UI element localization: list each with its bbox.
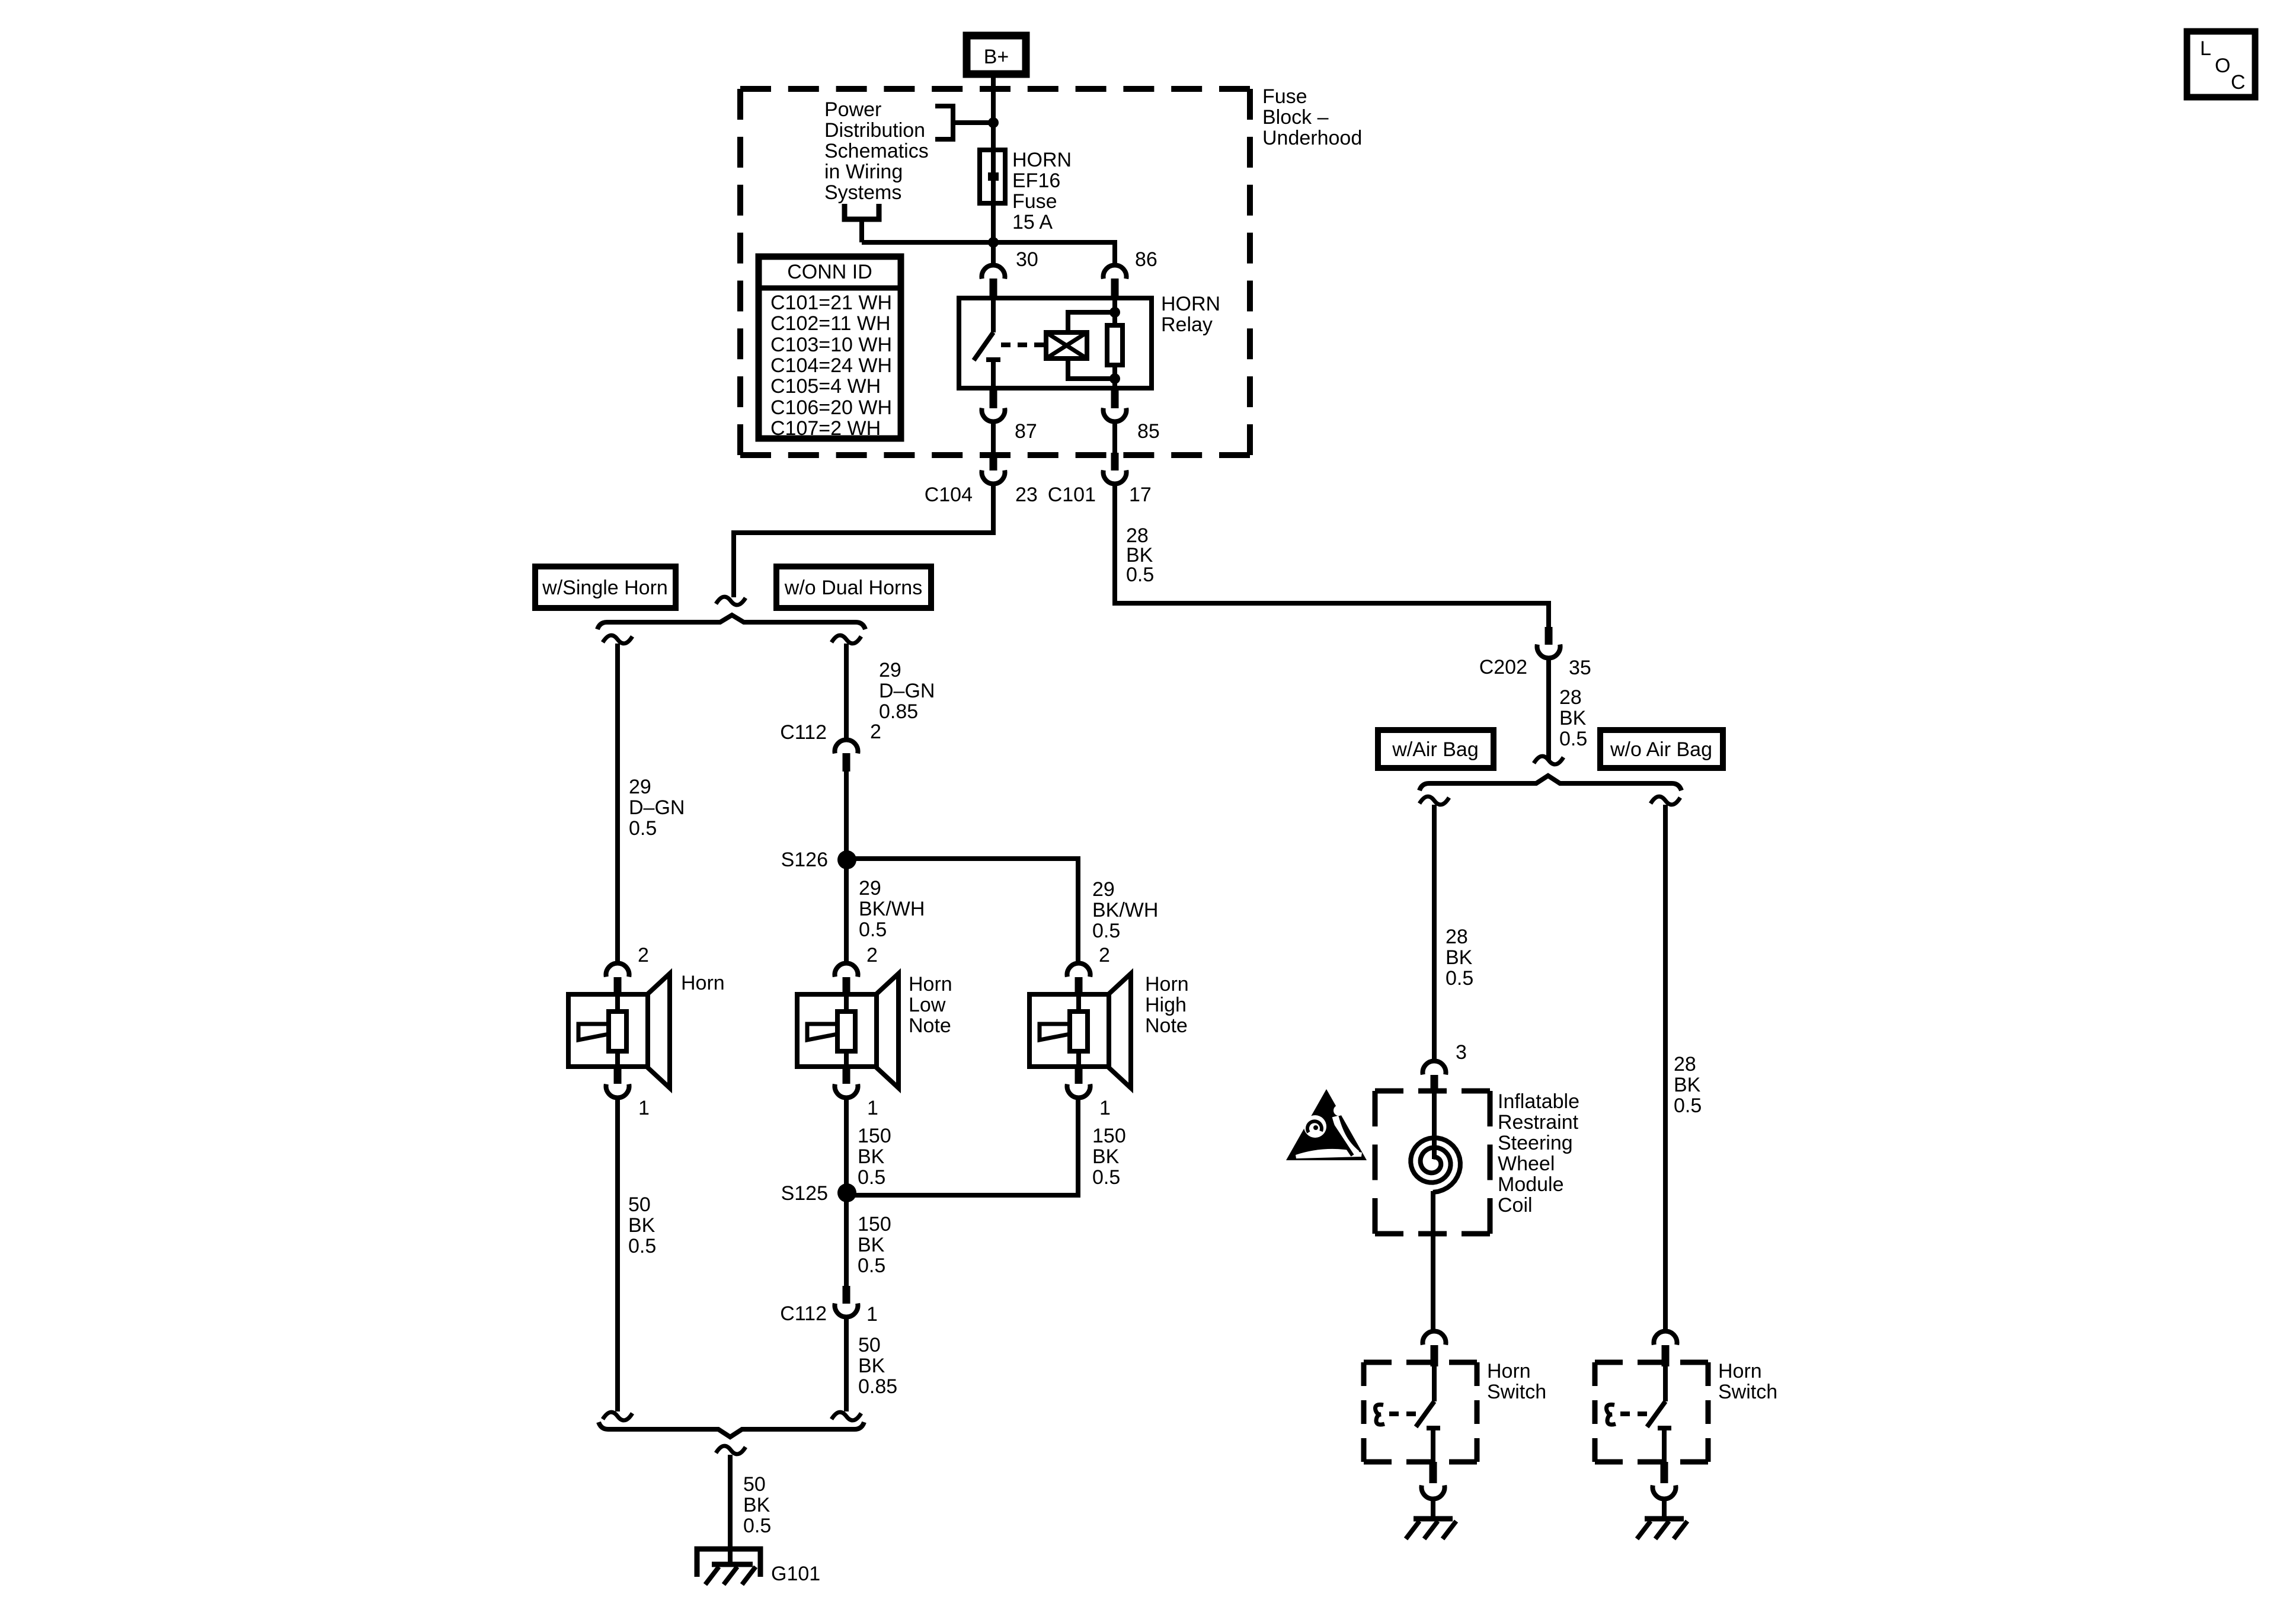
svg-text:w/Single Horn: w/Single Horn [542,577,668,599]
connector C104 female arc [982,470,1005,484]
wire S125 to horn high pin 1 [847,1099,1078,1195]
svg-text:w/o Dual Horns: w/o Dual Horns [784,577,922,599]
svg-text:C202: C202 [1479,656,1527,678]
right horn switch lower leg [1662,1428,1667,1462]
svg-text:150: 150 [1092,1125,1126,1147]
option box w/Single Horn [535,566,676,608]
horn 1 internal wire top [615,995,620,1013]
svg-text:Low: Low [909,994,946,1016]
horn high note internal wire bottom [1076,1050,1081,1068]
svg-text:Coil: Coil [1498,1194,1533,1217]
svg-text:CONN ID: CONN ID [787,261,872,283]
relay switch output leg [991,360,996,388]
wire C101 down right to C202 [1115,484,1549,628]
squiggle at middle branch bottom [832,1412,861,1420]
svg-text:2: 2 [870,721,881,743]
svg-text:35: 35 [1569,657,1591,679]
right horn switch input stub [1662,1345,1670,1366]
HORN relay box [959,298,1152,388]
junction dot coil bottom [1109,373,1120,384]
svg-text:2: 2 [638,944,649,966]
connector C101 female arc [1104,470,1127,484]
svg-text:2: 2 [866,944,878,966]
warning triangle airbag art [1304,1115,1326,1138]
squiggle at dual horns branch top [832,635,861,644]
svg-text:C107=2 WH: C107=2 WH [770,417,881,440]
connector female arc at right horn switch [1654,1331,1677,1345]
connector female arc at coil pin 3 [1423,1061,1446,1074]
svg-text:Note: Note [909,1014,951,1037]
svg-text:C: C [2231,71,2246,94]
horn low note pin 2 stub [843,977,850,995]
svg-text:C104: C104 [925,484,973,506]
horn high note pin 2 stub [1075,977,1083,995]
right horn switch contact tick [1658,1426,1671,1430]
relay coil loop wiring [1068,312,1115,379]
horn low note internal wire bottom [844,1050,849,1068]
horn low note pin 1 stub [843,1067,850,1084]
relay resistor lower leg [1112,365,1117,388]
wire middle branch to C112 [844,644,849,739]
svg-text:S125: S125 [781,1182,828,1205]
svg-text:Relay: Relay [1161,313,1213,336]
svg-text:Fuse: Fuse [1262,85,1307,108]
wire horn 1 to merge brace [615,1099,620,1411]
connector C112 pin 1 stub [843,1286,850,1304]
left horn switch upper leg [1432,1366,1437,1401]
relay switch common leg [991,298,996,332]
svg-text:23: 23 [1015,484,1038,506]
squiggle at left branch bottom [603,1412,632,1420]
left horn switch contact tick [1427,1426,1440,1430]
svg-text:28: 28 [1446,926,1468,948]
svg-text:HORN: HORN [1161,293,1220,315]
connector C202 male stub [1545,627,1553,645]
wire right horn switch to ground [1662,1498,1667,1519]
connector C101 male stub [1111,453,1119,470]
relay coil box with X [1046,332,1087,359]
svg-text:BK: BK [858,1234,885,1256]
svg-text:1: 1 [867,1097,878,1119]
B+ power feed box [967,36,1026,74]
svg-text:Note: Note [1145,1014,1188,1037]
left horn switch lower leg [1431,1428,1435,1462]
wire merge to G101 [728,1455,733,1564]
svg-text:0.5: 0.5 [1559,728,1587,750]
wire S125 to C112 pin 1 [844,1201,849,1286]
svg-text:C101: C101 [1048,484,1096,506]
horn low note pin 2 female arc [835,963,858,977]
svg-text:EF16: EF16 [1012,169,1060,192]
svg-text:29: 29 [879,659,901,681]
right horn switch actuator symbol [1607,1404,1616,1425]
ground at left horn switch slashes [1406,1521,1456,1539]
svg-text:0.5: 0.5 [1126,564,1154,586]
svg-text:0.5: 0.5 [859,918,887,941]
svg-text:BK: BK [1446,946,1473,969]
svg-text:w/o Air Bag: w/o Air Bag [1610,738,1712,761]
coil pin 3 stub [1431,1075,1438,1093]
junction dot at fuse output [988,237,999,248]
right horn switch upper leg [1663,1366,1668,1401]
svg-text:C105=4 WH: C105=4 WH [770,375,881,398]
horn high note coil element [1070,1012,1088,1051]
horn low note body box [797,994,877,1067]
svg-text:S126: S126 [781,849,828,871]
svg-text:BK: BK [1559,707,1587,729]
relay pin 86 internal leg [1112,298,1117,325]
horn 1 speaker cone [646,974,670,1088]
svg-text:1: 1 [1099,1097,1111,1119]
horn high note pin 2 female arc [1067,963,1091,977]
svg-text:0.5: 0.5 [1446,967,1473,990]
svg-text:Horn: Horn [1487,1360,1531,1382]
wire 85 to fuse block edge [1112,421,1117,453]
svg-text:0.85: 0.85 [858,1375,897,1398]
wire from bracket down [859,219,864,242]
svg-text:C112: C112 [780,1302,827,1325]
right horn switch dashed box [1595,1362,1708,1462]
horn high note speaker cone [1107,974,1131,1088]
svg-text:17: 17 [1129,484,1152,506]
svg-text:Schematics: Schematics [824,140,929,162]
svg-text:w/Air Bag: w/Air Bag [1392,738,1479,761]
svg-text:Horn: Horn [681,972,725,994]
horn high note internal wire top [1076,995,1081,1013]
svg-text:BK/WH: BK/WH [1092,899,1158,921]
merge brace to ground feed [599,1422,864,1437]
connector C112 pin 1 female arc [835,1304,858,1317]
svg-text:Restraint: Restraint [1498,1111,1579,1134]
svg-text:50: 50 [743,1473,766,1496]
svg-text:0.5: 0.5 [1092,1166,1120,1189]
svg-text:50: 50 [628,1193,651,1216]
wire bracket to B+ feed [953,120,993,125]
relay pin 86 stub [1111,279,1119,299]
option box w/o Air Bag [1600,730,1723,768]
horn 1 armature wedge [578,1024,609,1040]
relay actuator dashed link [1001,343,1041,347]
bracket below Systems text [845,204,879,219]
svg-text:Horn: Horn [909,973,952,996]
wire B+ to fuse [991,78,996,150]
squiggle at left branch top [603,635,632,644]
left horn switch output stub [1430,1462,1437,1483]
fuse block underhood dashed box [740,89,1250,455]
horn 1 (single) pin 2 female arc [606,963,629,977]
left horn switch input stub [1431,1345,1438,1366]
svg-text:3: 3 [1456,1041,1467,1064]
svg-text:G101: G101 [771,1563,820,1585]
horn high note armature wedge [1040,1024,1070,1040]
relay switch blade [974,332,993,360]
connector C202 female arc [1537,645,1560,658]
right horn switch output female arc [1653,1486,1676,1499]
splice S125 [837,1183,856,1202]
connector C112 pin 2 stub [843,753,850,772]
svg-text:BK: BK [1674,1074,1701,1096]
horn low note internal wire top [844,995,849,1013]
svg-text:BK: BK [743,1494,770,1516]
relay resistor [1107,325,1123,365]
svg-text:C104=24 WH: C104=24 WH [770,354,892,377]
horn high note body box [1029,994,1109,1067]
horn low note coil element [837,1012,855,1051]
wire into clockspring [1432,1092,1437,1159]
LOC reference box top right [2187,31,2255,97]
svg-text:Switch: Switch [1718,1381,1777,1403]
svg-text:150: 150 [858,1213,891,1235]
horn low note pin 1 female arc [835,1084,858,1098]
horn high note pin 1 stub [1075,1067,1083,1084]
connector C112 pin 2 female arc [835,740,858,753]
svg-text:High: High [1145,994,1187,1016]
left horn switch output female arc [1422,1486,1445,1499]
svg-text:Power: Power [824,98,881,121]
right horn switch output stub [1661,1462,1668,1483]
svg-text:87: 87 [1015,420,1037,443]
CONN ID table [759,257,901,438]
svg-text:0.5: 0.5 [1674,1094,1702,1117]
relay pin 85 stub [1111,388,1119,408]
option box w/o Dual Horns [776,566,931,608]
clockspring spiral [1411,1138,1460,1192]
connector female arc at relay pin 86 [1104,265,1127,279]
squiggle below merge brace [716,1446,746,1454]
svg-text:C103=10 WH: C103=10 WH [770,334,892,356]
wire C112 to S126 [844,770,849,859]
wire w/o air bag branch to horn switch [1663,805,1668,1331]
junction dot coil top [1109,307,1120,318]
svg-text:0.5: 0.5 [628,1235,656,1257]
svg-text:1: 1 [866,1303,878,1326]
wire horn low pin 1 to S125 [844,1099,849,1193]
relay pin 30 stub [990,279,997,299]
svg-text:L: L [2200,37,2211,60]
svg-text:Horn: Horn [1145,973,1189,996]
junction dot at B+ feed [988,117,999,128]
svg-text:O: O [2215,55,2230,77]
wire 87 to fuse block edge [991,421,996,453]
svg-text:0.5: 0.5 [743,1515,771,1537]
svg-text:Steering: Steering [1498,1132,1573,1154]
svg-text:Inflatable: Inflatable [1498,1090,1579,1113]
svg-text:BK: BK [1092,1145,1120,1168]
ground G101 hatch slashes [705,1567,756,1585]
svg-text:in Wiring: in Wiring [824,161,903,183]
svg-text:Horn: Horn [1718,1360,1762,1382]
wire left branch to Horn [615,644,620,962]
svg-text:HORN: HORN [1012,149,1072,171]
option box w/Air Bag [1378,730,1494,768]
svg-text:0.5: 0.5 [629,817,657,840]
svg-text:0.5: 0.5 [1092,920,1120,942]
connector female arc below pin 85 [1104,408,1127,422]
svg-text:28: 28 [1559,686,1582,709]
svg-text:0.5: 0.5 [858,1254,885,1277]
horn low note armature wedge [807,1024,837,1040]
svg-text:Module: Module [1498,1173,1564,1196]
svg-text:30: 30 [1016,248,1038,271]
svg-text:Block –: Block – [1262,106,1329,129]
right horn switch blade [1647,1401,1665,1427]
svg-text:0.85: 0.85 [879,700,918,723]
wire C112 pin 1 to merge brace [844,1319,849,1411]
horn low note speaker cone [875,974,898,1088]
svg-text:C101=21 WH: C101=21 WH [770,292,892,314]
svg-text:C106=20 WH: C106=20 WH [770,396,892,419]
horn 1 pin 1 stub [614,1067,622,1084]
wire air bag branch to coil pin 3 [1432,805,1437,1061]
fuse HORN EF16 15A [980,150,1005,203]
wire clockspring to horn switch [1431,1191,1435,1331]
svg-text:C102=11 WH: C102=11 WH [770,312,891,335]
relay pin 87 stub [990,388,997,408]
relay switch contact tick [986,357,1000,362]
connector female arc at relay pin 30 [982,265,1005,279]
svg-text:BK: BK [858,1355,885,1377]
svg-text:BK: BK [628,1214,655,1237]
ground G101 hatch bar [712,1562,753,1567]
squiggle at air bag split feed [1534,756,1563,764]
bracket right of Power Distribution text [935,106,953,139]
svg-text:15 A: 15 A [1012,211,1053,233]
ground at right horn switch slashes [1637,1521,1687,1539]
left horn switch dashed box [1364,1362,1477,1462]
wire S126 to horn low note [844,867,849,962]
wire fuse to pin 30 [991,203,996,263]
wire left horn switch to ground [1431,1498,1435,1519]
svg-text:1: 1 [638,1097,650,1119]
svg-text:0.5: 0.5 [858,1166,885,1189]
svg-text:85: 85 [1137,420,1160,443]
svg-text:86: 86 [1135,248,1157,271]
relay coil stub [1038,343,1046,347]
connector female arc at left horn switch [1423,1331,1446,1345]
wire break squiggle at single horn split [716,597,746,605]
svg-text:BK/WH: BK/WH [859,898,925,920]
right horn switch actuator dashed link [1620,1411,1655,1416]
svg-text:28: 28 [1674,1053,1696,1076]
horn 1 pin 2 stub [614,977,622,995]
svg-text:Fuse: Fuse [1012,190,1057,213]
svg-text:Underhood: Underhood [1262,127,1362,149]
svg-text:D–GN: D–GN [629,796,685,819]
wire S126 to horn high note [847,859,1078,962]
horn high note pin 1 female arc [1067,1084,1091,1098]
svg-text:BK: BK [858,1145,885,1168]
squiggle at w/air bag branch top [1419,796,1449,805]
svg-text:150: 150 [858,1125,891,1147]
svg-text:2: 2 [1099,944,1110,966]
svg-text:Wheel: Wheel [1498,1153,1555,1175]
svg-text:29: 29 [859,877,881,900]
ground G101 staple [697,1549,760,1577]
split brace under single horn feed [597,615,865,629]
horn 1 pin 1 female arc [606,1084,629,1098]
svg-text:29: 29 [629,776,651,798]
horn 1 internal wire bottom [615,1050,620,1068]
horn 1 coil element [609,1012,626,1051]
ground at left horn switch hatch bar [1414,1516,1453,1522]
svg-text:B+: B+ [984,46,1009,68]
connector female arc below pin 87 [982,408,1005,422]
left horn switch actuator dashed link [1389,1411,1424,1416]
wire C202 to air bag split [1546,660,1551,760]
left horn switch actuator symbol [1376,1404,1384,1425]
split brace air bag options [1419,776,1681,790]
connector C104 male stub [990,453,997,470]
inflatable restraint coil dashed box [1375,1091,1490,1234]
wire bus to relay pins 30 and 86 [862,242,1115,263]
svg-text:Systems: Systems [824,181,901,204]
svg-text:50: 50 [858,1334,881,1356]
air bag warning triangle [1286,1089,1367,1160]
svg-text:D–GN: D–GN [879,680,935,702]
svg-text:29: 29 [1092,878,1115,901]
squiggle at w/o air bag branch top [1651,796,1680,805]
left horn switch blade [1416,1401,1434,1427]
wire C104 down then left [734,484,993,597]
svg-text:C112: C112 [780,721,827,744]
horn 1 body box [568,994,648,1067]
svg-text:Distribution: Distribution [824,119,925,142]
svg-text:Switch: Switch [1487,1381,1546,1403]
ground at right horn switch hatch bar [1645,1516,1684,1522]
splice S126 [837,850,856,869]
